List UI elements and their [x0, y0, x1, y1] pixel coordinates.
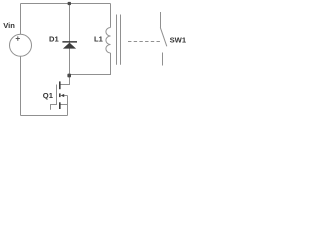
svg-text:L1: L1 [94, 35, 104, 44]
svg-text:D1: D1 [49, 34, 59, 43]
svg-text:Vin: Vin [3, 21, 15, 30]
svg-text:SW1: SW1 [170, 36, 187, 45]
svg-text:Q1: Q1 [43, 91, 54, 100]
